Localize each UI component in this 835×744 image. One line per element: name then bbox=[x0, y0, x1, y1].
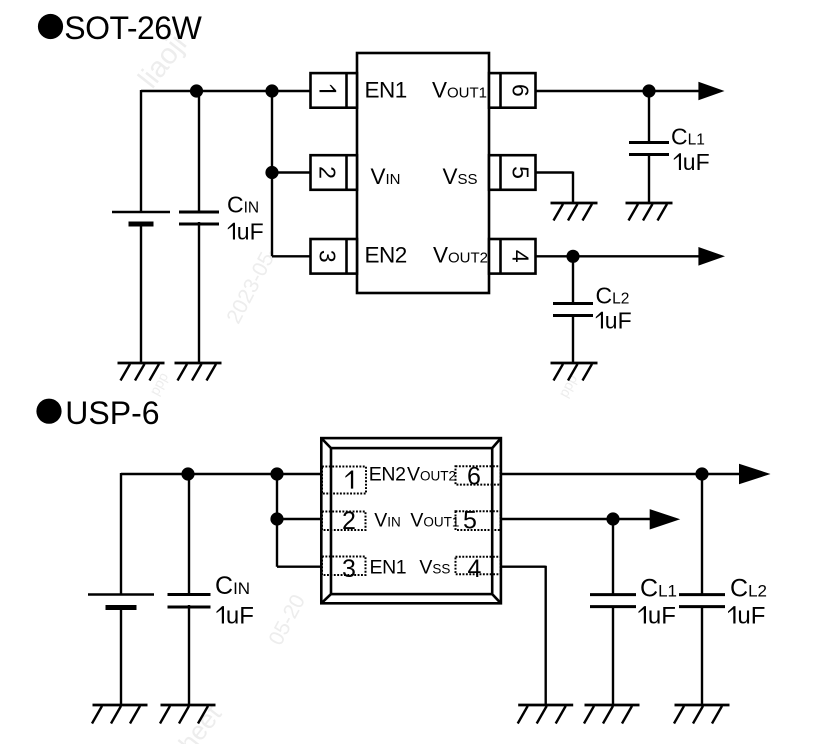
wire CIN2 to ground bbox=[188, 605, 190, 705]
battery V2 bbox=[88, 595, 154, 608]
value CIN 1uF (USP) bbox=[217, 603, 254, 630]
svg-text:EN2: EN2 bbox=[365, 243, 407, 268]
wire VSS pin5 stub bbox=[536, 172, 574, 204]
value CL2 1uF (USP) bbox=[728, 603, 765, 630]
pin label VIN (USP) bbox=[374, 510, 401, 532]
wire CIN to top rail bbox=[198, 91, 200, 213]
svg-text:6: 6 bbox=[467, 462, 481, 490]
label CIN (USP) bbox=[215, 572, 250, 600]
pin 4 (USP-6) bbox=[456, 555, 501, 583]
title USP-6 bbox=[36, 395, 159, 431]
pin 5 (USP-6) bbox=[456, 506, 501, 534]
pin label VSS (USP) bbox=[419, 557, 450, 579]
svg-text:2: 2 bbox=[315, 166, 341, 179]
arrow VOUT1 output (USP) bbox=[650, 509, 681, 529]
pin 3 (USP-6) bbox=[322, 555, 366, 583]
pin label EN1 bbox=[365, 78, 407, 103]
ground battery V2 bbox=[92, 705, 148, 724]
title SOT-26W bbox=[38, 10, 203, 46]
svg-text:EN1: EN1 bbox=[370, 557, 407, 579]
svg-text:uF: uF bbox=[605, 308, 632, 334]
wire battery2 to rail bbox=[120, 473, 122, 595]
capacitor CL2 bbox=[553, 304, 593, 316]
value CIN 1uF bbox=[228, 219, 264, 245]
pin 2 (USP-6) bbox=[322, 507, 366, 535]
pin 6 (USP-6) bbox=[456, 462, 501, 490]
wire VSS pin4 to ground bbox=[501, 566, 546, 705]
svg-text:5: 5 bbox=[508, 166, 534, 179]
wire VIN bottom rail bbox=[121, 473, 321, 475]
wire CL2b to ground bbox=[701, 607, 703, 705]
wire to pin2 bbox=[272, 171, 311, 173]
wire CIN2 to rail bbox=[188, 474, 190, 595]
svg-text:uF: uF bbox=[648, 603, 676, 630]
pin label VSS bbox=[443, 164, 478, 189]
svg-text:CL1: CL1 bbox=[640, 575, 677, 603]
ground VSS pin5 bbox=[551, 203, 598, 221]
label CL2 (USP) bbox=[730, 575, 767, 603]
svg-text:5: 5 bbox=[463, 506, 477, 534]
svg-text:EN2: EN2 bbox=[369, 463, 406, 485]
wire VOUT2 to arrow bbox=[536, 255, 701, 257]
pin label VOUT2 (USP) bbox=[407, 463, 456, 485]
svg-text:05-20: 05-20 bbox=[264, 591, 310, 649]
value CL2 1uF bbox=[596, 308, 632, 334]
arrow VOUT1 output bbox=[698, 82, 724, 101]
ground CL1 (USP) bbox=[584, 705, 640, 724]
wire CIN to ground bbox=[198, 222, 200, 363]
svg-text:CL2: CL2 bbox=[596, 283, 630, 309]
pin 5 (SOT-26W) bbox=[489, 155, 536, 190]
pin label VOUT1 (USP) bbox=[410, 510, 459, 532]
svg-text:uF: uF bbox=[683, 149, 710, 175]
wire VOUT1 to arrow (USP) bbox=[501, 518, 651, 520]
label CL2 bbox=[596, 283, 630, 309]
wire rail branch vertical bbox=[271, 91, 273, 256]
ground pin4 (USP) bbox=[518, 705, 574, 724]
ground CL1 bbox=[626, 203, 673, 221]
pin 6 (SOT-26W) bbox=[489, 73, 536, 108]
svg-text:4: 4 bbox=[508, 250, 534, 263]
svg-text:2: 2 bbox=[342, 507, 356, 535]
wire to pin2 USP bbox=[277, 518, 321, 520]
ground CL2 (USP) bbox=[674, 705, 730, 724]
pin 3 (SOT-26W) bbox=[311, 239, 358, 274]
node VOUT1-CL1 junction (USP) bbox=[606, 512, 619, 525]
capacitor CL1 bbox=[629, 143, 669, 155]
ground CIN (USP) bbox=[160, 705, 216, 724]
wire CL1 to ground bbox=[648, 154, 650, 203]
pin label VOUT2 bbox=[433, 243, 488, 268]
pin label EN2 bbox=[365, 243, 407, 268]
wire CL1 top bbox=[648, 91, 650, 143]
svg-text:4: 4 bbox=[468, 555, 482, 583]
wire battery2 to ground bbox=[120, 605, 122, 705]
node VIN branch junction bbox=[265, 166, 278, 179]
capacitor CL1 (USP) bbox=[590, 595, 636, 607]
svg-text:SOT-26W: SOT-26W bbox=[64, 10, 202, 46]
svg-text:3: 3 bbox=[315, 250, 341, 263]
node VOUT1-CL1 junction bbox=[642, 84, 655, 97]
svg-text:CL1: CL1 bbox=[671, 124, 705, 150]
wire CL2 to ground bbox=[572, 315, 574, 363]
capacitor CL2 (USP) bbox=[679, 595, 725, 607]
pin label EN2 (USP) bbox=[369, 463, 406, 485]
svg-text:ppp: ppp bbox=[555, 371, 580, 399]
svg-text:uF: uF bbox=[737, 603, 765, 630]
ground CL2 bbox=[551, 363, 598, 381]
svg-text:3: 3 bbox=[342, 555, 356, 583]
wire to pin3 USP bbox=[277, 566, 321, 568]
op-amp U2 USP-6 package body bbox=[321, 438, 501, 603]
wire battery to ground bbox=[140, 222, 142, 363]
wire battery to top rail bbox=[140, 90, 142, 213]
wire CL1b top bbox=[612, 519, 614, 595]
node VOUT2-CL2 junction (USP) bbox=[695, 467, 708, 480]
svg-text:CIN: CIN bbox=[227, 192, 259, 218]
node VOUT2-CL2 junction bbox=[566, 250, 579, 263]
pin 2 (SOT-26W) bbox=[311, 155, 358, 190]
value CL1 1uF (USP) bbox=[639, 603, 676, 630]
svg-text:CL2: CL2 bbox=[730, 575, 767, 603]
ground CIN bbox=[175, 363, 222, 381]
wire VOUT1 to arrow bbox=[536, 90, 701, 92]
battery V1 bbox=[112, 212, 170, 224]
wire VIN top rail bbox=[141, 90, 311, 92]
svg-text:USP-6: USP-6 bbox=[65, 395, 159, 431]
node VIN branch junction 2 bbox=[270, 512, 283, 525]
label CIN bbox=[227, 192, 259, 218]
label CL1 (USP) bbox=[640, 575, 677, 603]
wire CL2 top bbox=[572, 256, 574, 304]
svg-text:ppp: ppp bbox=[146, 369, 171, 397]
op-amp U1 SOT-26W body bbox=[357, 53, 489, 293]
pin label EN1 (USP) bbox=[370, 557, 407, 579]
pin 1 (USP-6) bbox=[322, 467, 366, 494]
value CL1 1uF bbox=[674, 149, 710, 175]
capacitor CIN (USP) bbox=[168, 595, 211, 608]
arrow VOUT2 output (USP) bbox=[739, 464, 771, 485]
pin 1 (SOT-26W) bbox=[311, 73, 358, 108]
arrow VOUT2 output bbox=[698, 247, 725, 266]
pin label VIN bbox=[371, 164, 401, 189]
svg-text:6: 6 bbox=[508, 84, 534, 97]
wire rail branch vertical 2 bbox=[276, 474, 278, 567]
node rail-CIN junction bbox=[190, 84, 203, 97]
node rail-branch junction 2 bbox=[270, 467, 283, 480]
pin 4 (SOT-26W) bbox=[489, 239, 536, 274]
wire CL2b top bbox=[701, 474, 703, 595]
decorative watermark bbox=[132, 29, 580, 744]
svg-text:CIN: CIN bbox=[215, 572, 250, 600]
wire CL1b to ground bbox=[612, 607, 614, 705]
label CL1 bbox=[671, 124, 705, 150]
wire to pin3 bbox=[272, 255, 311, 257]
ground battery V1 bbox=[118, 363, 165, 381]
wire VOUT2 to arrow (USP) bbox=[501, 473, 741, 475]
svg-text:uF: uF bbox=[226, 603, 254, 630]
node rail-branch junction bbox=[265, 84, 278, 97]
svg-text:EN1: EN1 bbox=[365, 78, 407, 103]
node rail-CIN2 junction bbox=[181, 467, 194, 480]
capacitor CIN bbox=[179, 212, 219, 224]
pin label VOUT1 bbox=[432, 78, 487, 103]
svg-text:uF: uF bbox=[237, 219, 264, 245]
